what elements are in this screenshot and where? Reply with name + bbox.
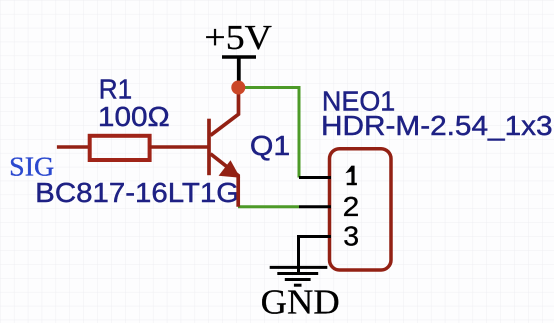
connector NEO1 pin 3 stub [299, 235, 331, 238]
ground symbol bar 4 [294, 284, 302, 287]
connector NEO1 body [330, 149, 392, 270]
svg-text:2: 2 [343, 191, 360, 222]
connector NEO1 pin 1 stub [299, 176, 331, 179]
svg-text:GND: GND [261, 281, 340, 321]
wire green from +5V to pin 1 of NEO1 [238, 88, 299, 178]
ground symbol bar 1 [270, 266, 328, 269]
wire from SIG to resistor R1 [57, 145, 90, 149]
power +5V symbol bar [222, 55, 256, 59]
power +5V symbol stem [237, 57, 241, 88]
wire green from Q1 emitter to pin 2 of NEO1 [238, 205, 299, 208]
svg-text:HDR-M-2.54_1x3: HDR-M-2.54_1x3 [321, 110, 553, 141]
svg-text:Q1: Q1 [250, 130, 290, 161]
transistor Q1 collector diagonal [211, 88, 239, 136]
ground symbol stem [297, 237, 300, 273]
ground symbol bar 3 [285, 278, 311, 281]
svg-text:+5V: +5V [204, 18, 272, 57]
transistor Q1 base bar [207, 119, 211, 176]
wire from resistor R1 to Q1 base [150, 145, 209, 149]
connector NEO1 pin number 1 [345, 166, 357, 185]
ground symbol bar 2 [277, 272, 318, 275]
resistor R1 body [90, 136, 150, 160]
wire from pin 3 to ground [299, 237, 330, 268]
junction dot [231, 81, 245, 95]
transistor Q1 emitter arrowhead [219, 160, 241, 178]
svg-text:100Ω: 100Ω [98, 101, 170, 132]
svg-text:BC817-16LT1G: BC817-16LT1G [35, 177, 239, 208]
svg-text:3: 3 [343, 221, 359, 252]
transistor Q1 emitter diagonal [211, 154, 239, 207]
svg-text:R1: R1 [99, 73, 132, 104]
connector NEO1 pin 2 stub [299, 205, 331, 208]
